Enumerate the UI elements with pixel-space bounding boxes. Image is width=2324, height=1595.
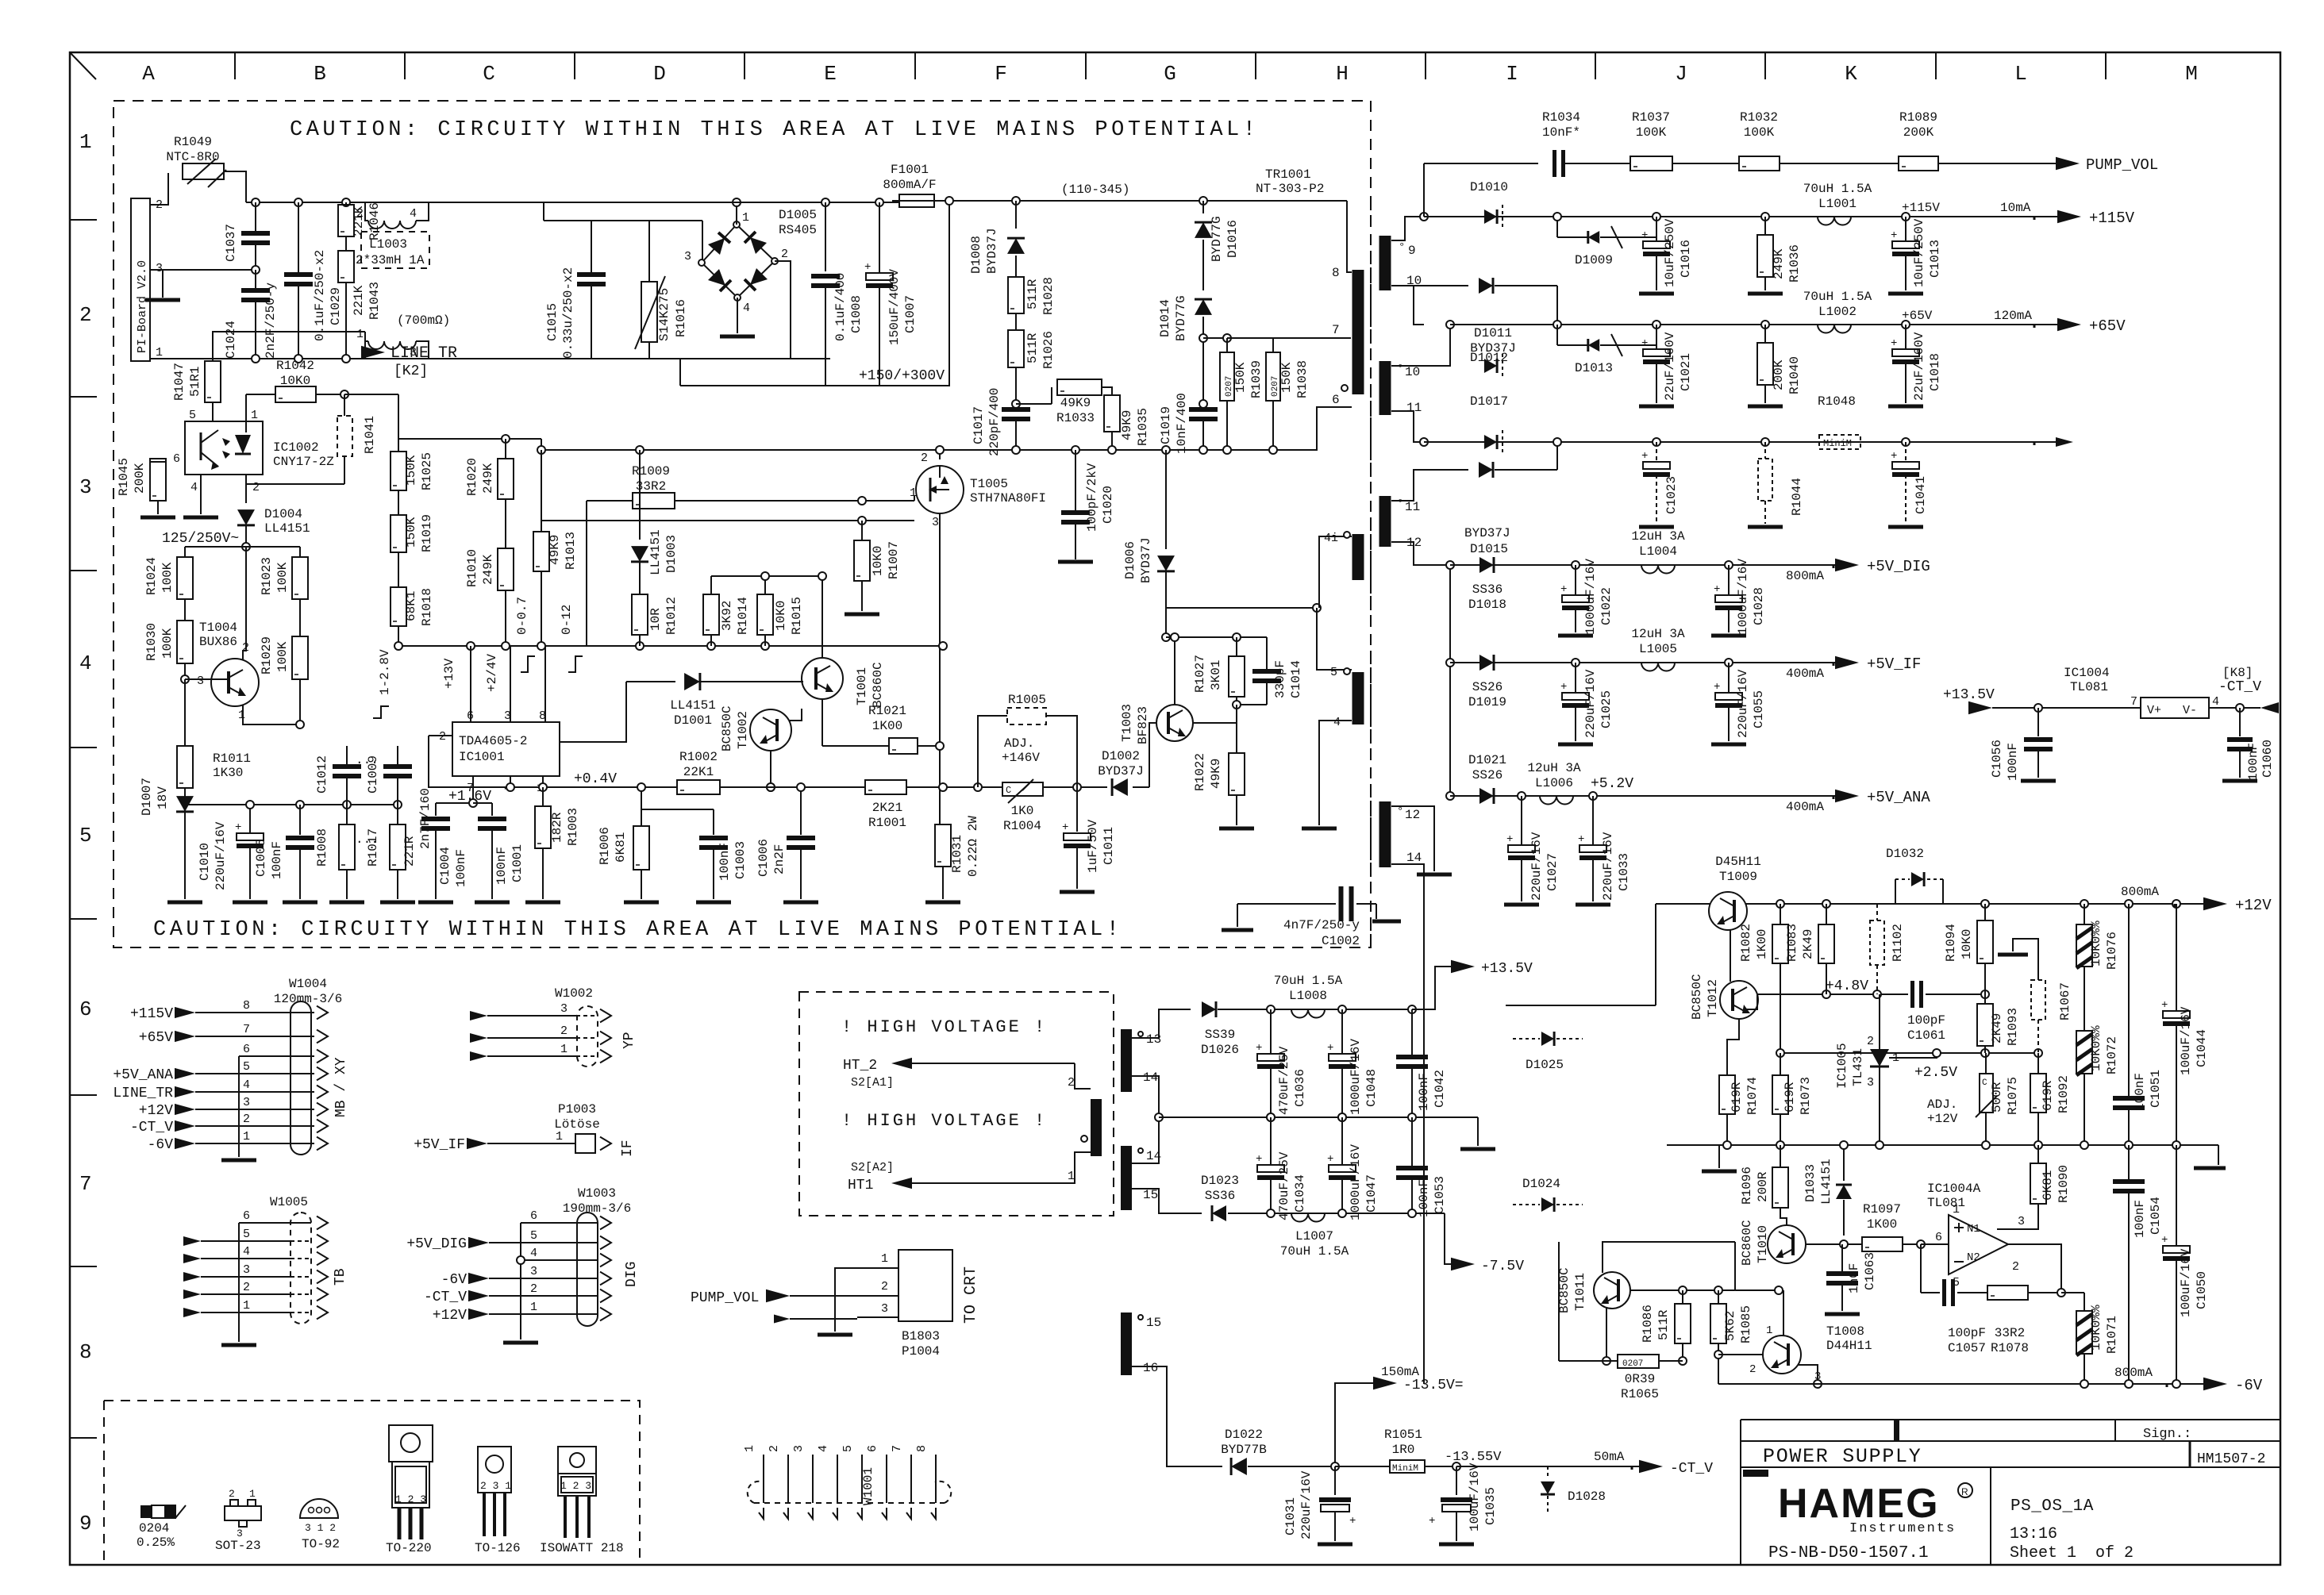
svg-text:B1803: B1803 xyxy=(902,1329,940,1343)
svg-text:4: 4 xyxy=(2212,695,2219,709)
wire xyxy=(1149,723,1157,787)
svg-text:R1046: R1046 xyxy=(367,202,382,240)
wire xyxy=(939,450,941,459)
svg-text:RS405: RS405 xyxy=(779,223,817,237)
small arrow xyxy=(2034,442,2036,445)
svg-text:5: 5 xyxy=(189,409,196,422)
resistor R1005 dashed xyxy=(1007,708,1046,724)
svg-text:6: 6 xyxy=(173,452,180,466)
svg-text:R1013: R1013 xyxy=(564,532,578,570)
svg-text:70uH 1.5A: 70uH 1.5A xyxy=(1803,182,1872,196)
column tick xyxy=(404,52,406,79)
wire xyxy=(185,804,398,805)
svg-text:2: 2 xyxy=(1749,1363,1756,1376)
junction xyxy=(1603,1357,1610,1365)
wire xyxy=(1740,1420,1741,1565)
svg-text:°: ° xyxy=(1397,805,1403,818)
column tick xyxy=(1595,52,1596,79)
svg-text:R1024: R1024 xyxy=(144,557,159,595)
svg-text:C1003: C1003 xyxy=(733,841,748,879)
svg-text:100K: 100K xyxy=(1636,125,1667,140)
svg-text:7: 7 xyxy=(243,1023,250,1036)
junction xyxy=(1723,1141,1731,1149)
svg-text:10K0: 10K0 xyxy=(1960,929,1974,959)
resistor R1030 100K xyxy=(184,599,186,621)
svg-text:8: 8 xyxy=(243,999,250,1013)
svg-text:C1029: C1029 xyxy=(329,287,343,325)
svg-text:1: 1 xyxy=(560,1043,568,1056)
svg-text:A: A xyxy=(142,62,155,86)
svg-text:-6V: -6V xyxy=(2235,1377,2263,1394)
svg-text:33R2: 33R2 xyxy=(1995,1326,2025,1340)
svg-text:C1028: C1028 xyxy=(1752,587,1766,625)
svg-text:-13.55V: -13.55V xyxy=(1445,1450,1502,1465)
wire pin8 xyxy=(1347,201,1352,272)
resistor R1022 49K9 xyxy=(1236,705,1237,753)
svg-text:+150/+300V: +150/+300V xyxy=(859,368,945,384)
svg-text:TL081: TL081 xyxy=(2070,680,2108,694)
svg-text:330pF: 330pF xyxy=(1273,660,1287,698)
title emb mark xyxy=(1743,1470,1768,1477)
wire W1005 pin6 gnd xyxy=(238,1223,240,1342)
wire xyxy=(246,475,344,484)
wire xyxy=(1046,716,1077,787)
svg-text:221R: 221R xyxy=(402,836,417,867)
svg-text:220uF/16V: 220uF/16V xyxy=(1299,1470,1314,1539)
capacitor C1050 100uF/16V xyxy=(2176,1145,2177,1245)
svg-text:BYD37J: BYD37J xyxy=(985,228,999,274)
resistor R1002 22K1 xyxy=(677,780,720,794)
wire xyxy=(679,359,681,386)
svg-text:+115V: +115V xyxy=(2089,209,2135,227)
junction xyxy=(539,783,547,791)
svg-text:PS-NB-D50-1507.1: PS-NB-D50-1507.1 xyxy=(1768,1544,1929,1562)
resistor R1018 68K1 xyxy=(398,552,399,587)
svg-text:HAMEG: HAMEG xyxy=(1778,1481,1940,1527)
wire xyxy=(184,813,186,899)
resistor R1001 2K21 xyxy=(865,780,906,794)
svg-text:0.1uF/250-x2: 0.1uF/250-x2 xyxy=(313,250,327,341)
svg-text:2n2F: 2n2F xyxy=(772,844,787,874)
junction xyxy=(767,783,775,791)
svg-text:125/250V~: 125/250V~ xyxy=(162,531,239,547)
wire pin16 xyxy=(1132,1366,1222,1466)
capacitor C1009 2n7F/160 xyxy=(397,746,398,766)
capacitor C1015 xyxy=(577,272,606,277)
junction xyxy=(1199,400,1207,408)
junction xyxy=(1902,213,1910,221)
svg-text:IC1001: IC1001 xyxy=(459,750,505,764)
net arrow +12V xyxy=(2203,897,2227,911)
svg-text:D1015: D1015 xyxy=(1470,542,1508,556)
wire xyxy=(1656,903,1710,905)
svg-text:C1016: C1016 xyxy=(1679,240,1693,278)
wire xyxy=(1741,1466,2280,1468)
svg-text:3: 3 xyxy=(243,1096,250,1109)
svg-text:[K8]: [K8] xyxy=(2222,666,2253,680)
svg-text:(700mΩ): (700mΩ) xyxy=(397,313,450,328)
svg-text:-7.5V: -7.5V xyxy=(1481,1259,1524,1274)
junction xyxy=(467,642,475,650)
svg-text:200K: 200K xyxy=(1903,125,1934,140)
svg-text:-13.5V=: -13.5V= xyxy=(1403,1378,1464,1393)
inductor L1003 bottom winding xyxy=(365,341,368,359)
IC TDA4605-2 IC1001 xyxy=(452,722,560,776)
svg-text:R1030: R1030 xyxy=(144,623,159,661)
column tick xyxy=(2105,52,2107,79)
svg-text:M: M xyxy=(2185,62,2198,86)
wire xyxy=(429,736,473,787)
wire pin11 xyxy=(1391,411,1424,442)
svg-text:L1005: L1005 xyxy=(1639,642,1677,656)
wire pin14b xyxy=(1132,1117,1159,1163)
wire xyxy=(1450,795,1841,797)
svg-text:4: 4 xyxy=(743,302,750,315)
wire xyxy=(1075,1063,1091,1089)
svg-text:1: 1 xyxy=(251,409,258,422)
svg-text:+5V_DIG: +5V_DIG xyxy=(1867,558,1930,575)
resistor dashed spare xyxy=(2013,939,2038,980)
svg-text:C1013: C1013 xyxy=(1928,240,1942,278)
svg-text:T1012: T1012 xyxy=(1706,979,1720,1017)
svg-text:R1003: R1003 xyxy=(566,808,580,846)
junction xyxy=(797,783,805,791)
svg-text:221K: 221K xyxy=(352,285,366,316)
junction xyxy=(1267,1209,1275,1217)
svg-text:C1009: C1009 xyxy=(366,755,380,794)
svg-text:182R: 182R xyxy=(550,812,564,843)
caution area dashed box xyxy=(114,101,1371,947)
junction xyxy=(1776,1049,1784,1057)
svg-text:2n2F/250-y: 2n2F/250-y xyxy=(264,282,278,359)
W1001 pin 4 xyxy=(837,1455,838,1503)
diode D1015 BYD37J xyxy=(1424,469,1468,471)
svg-text:N1: N1 xyxy=(1967,1223,1980,1236)
W1005 pin 5 xyxy=(183,1236,201,1246)
junction xyxy=(2080,1141,2088,1149)
svg-text:1: 1 xyxy=(743,1445,756,1452)
transistor T1012 BC850C xyxy=(1720,981,1758,1019)
svg-text:1: 1 xyxy=(910,486,917,500)
row tick xyxy=(70,918,97,920)
svg-text:100K: 100K xyxy=(275,641,290,672)
junction xyxy=(1446,792,1454,800)
svg-text:D1010: D1010 xyxy=(1470,180,1508,194)
svg-text:+12V: +12V xyxy=(433,1308,467,1324)
svg-text:2 3 1: 2 3 1 xyxy=(480,1480,511,1492)
svg-text:7: 7 xyxy=(891,1445,904,1452)
svg-text:7: 7 xyxy=(79,1172,92,1196)
column tick xyxy=(234,52,236,79)
svg-text:3: 3 xyxy=(243,1263,250,1277)
row tick xyxy=(70,1266,97,1267)
junction xyxy=(1518,792,1526,800)
svg-text:R1065: R1065 xyxy=(1621,1387,1659,1401)
dc loop wire xyxy=(680,201,949,386)
svg-text:8: 8 xyxy=(79,1340,92,1364)
wire xyxy=(1997,1204,2038,1229)
svg-text:+: + xyxy=(1560,681,1567,694)
svg-text:C1004: C1004 xyxy=(438,847,452,885)
wire xyxy=(1745,994,1757,1009)
svg-text:S2[A2]: S2[A2] xyxy=(851,1161,894,1174)
svg-text:R1040: R1040 xyxy=(1787,356,1802,394)
resistor R1047 51R1 xyxy=(205,361,221,402)
wire xyxy=(238,1056,240,1157)
column tick xyxy=(744,52,745,79)
wire xyxy=(472,776,474,805)
junction xyxy=(1553,321,1561,329)
wire xyxy=(1889,1053,1937,1058)
svg-text:LINE_TR: LINE_TR xyxy=(391,344,457,363)
svg-text:6: 6 xyxy=(243,1043,250,1056)
junction xyxy=(1589,792,1597,800)
svg-text:+2/4V: +2/4V xyxy=(485,654,499,692)
svg-text:150K: 150K xyxy=(404,517,418,548)
svg-text:+: + xyxy=(1062,821,1068,834)
wire xyxy=(1558,1242,1560,1361)
svg-text:3: 3 xyxy=(792,1445,806,1452)
svg-text:TO-92: TO-92 xyxy=(302,1537,340,1551)
svg-text:C1024: C1024 xyxy=(224,321,238,359)
svg-text:R1049: R1049 xyxy=(174,135,212,149)
junction xyxy=(1714,1286,1722,1294)
wire xyxy=(213,332,365,341)
svg-text:D1019: D1019 xyxy=(1468,695,1506,709)
transistor T1005 STH7NA80FI xyxy=(916,466,964,513)
transformer secondary bar 12-14 xyxy=(1379,801,1391,867)
capacitor C1063 1n0F xyxy=(1841,1244,1843,1273)
wire xyxy=(1370,201,1372,947)
W1003 pin 4 xyxy=(521,1259,597,1261)
svg-text:B: B xyxy=(314,62,326,86)
svg-text:R1014: R1014 xyxy=(736,597,750,635)
resistor R1045 200K xyxy=(150,459,166,501)
svg-text:C1037: C1037 xyxy=(224,224,238,262)
transformer secondary bar 11-12 xyxy=(1379,496,1391,547)
junction xyxy=(2172,1141,2180,1149)
svg-text:150K: 150K xyxy=(1279,362,1294,393)
svg-text:70uH 1.5A: 70uH 1.5A xyxy=(1274,974,1343,988)
svg-text:+: + xyxy=(1714,681,1720,694)
svg-text:120mA: 120mA xyxy=(1994,309,2032,323)
svg-text:R1004: R1004 xyxy=(1003,819,1041,833)
svg-text:SS26: SS26 xyxy=(1472,768,1503,782)
junction xyxy=(1338,1113,1346,1121)
svg-text:0-0.7: 0-0.7 xyxy=(515,597,529,635)
junction xyxy=(502,435,510,443)
wire pin14 xyxy=(1391,864,1424,1384)
resistor R1051 1R0 MiniM xyxy=(1335,1466,1390,1467)
svg-text:T1008: T1008 xyxy=(1826,1324,1864,1339)
svg-text:C1047: C1047 xyxy=(1364,1174,1379,1213)
svg-text:4: 4 xyxy=(190,481,198,494)
svg-text:V-: V- xyxy=(2183,704,2197,717)
junction xyxy=(342,355,350,363)
svg-text:BC860C: BC860C xyxy=(1740,1220,1754,1266)
svg-text:HT1: HT1 xyxy=(848,1178,873,1193)
svg-text:1uF/50V: 1uF/50V xyxy=(1086,819,1100,873)
resistor R1010 249K xyxy=(505,499,506,548)
resistor R1041 dashed xyxy=(337,416,352,456)
svg-text:ADJ.: ADJ. xyxy=(1927,1097,1957,1112)
junction xyxy=(1981,990,1989,998)
svg-text:22uF/160V: 22uF/160V xyxy=(1912,332,1926,401)
svg-text:NT-303-P2: NT-303-P2 xyxy=(1256,182,1324,196)
svg-text:R1027: R1027 xyxy=(1193,655,1207,693)
svg-text:C1019: C1019 xyxy=(1159,406,1173,444)
svg-text:ADJ.: ADJ. xyxy=(1004,736,1034,751)
wire xyxy=(835,1268,857,1332)
svg-text:619R: 619R xyxy=(2041,1080,2055,1111)
svg-text:100pF: 100pF xyxy=(1907,1013,1945,1028)
svg-text:G: G xyxy=(1164,62,1176,86)
wire xyxy=(436,802,473,804)
svg-text:C1006: C1006 xyxy=(756,839,771,877)
svg-text:C1017: C1017 xyxy=(972,406,986,444)
svg-text:+13.5V: +13.5V xyxy=(1481,961,1533,977)
junction xyxy=(252,355,260,363)
junction xyxy=(1267,1113,1275,1121)
package ISOWATT 218 xyxy=(558,1447,596,1474)
junction xyxy=(733,198,741,206)
svg-text:+: + xyxy=(1560,583,1567,596)
svg-text:100nF: 100nF xyxy=(2006,743,2020,781)
diode D1009 xyxy=(1556,217,1558,237)
wire xyxy=(1799,1365,1818,1384)
svg-text:10K0: 10K0 xyxy=(871,546,885,576)
wire xyxy=(1672,163,1739,164)
svg-text:4: 4 xyxy=(817,1445,830,1452)
net arrow +115V xyxy=(2057,210,2081,224)
svg-text:0R39: 0R39 xyxy=(1625,1372,1655,1386)
junction xyxy=(252,198,260,206)
svg-text:10uF/250V: 10uF/250V xyxy=(1663,218,1677,287)
svg-text:R1083: R1083 xyxy=(1785,924,1799,962)
svg-text:2: 2 xyxy=(921,452,928,465)
svg-text:D1009: D1009 xyxy=(1575,253,1613,267)
svg-text:+: + xyxy=(1327,1042,1333,1055)
svg-text:1K0: 1K0 xyxy=(1011,804,1034,818)
svg-text:BYD37J: BYD37J xyxy=(1098,764,1144,778)
phase dot xyxy=(1081,1136,1087,1142)
transformer primary winding bar top xyxy=(1352,270,1364,394)
svg-text:68K1: 68K1 xyxy=(404,591,418,621)
svg-text:D1002: D1002 xyxy=(1102,749,1140,763)
svg-text:1000uF/16V: 1000uF/16V xyxy=(1349,1039,1363,1115)
svg-text:R1028: R1028 xyxy=(1041,277,1056,315)
resistor R1074 619R xyxy=(1727,1019,1739,1075)
svg-text:4i: 4i xyxy=(1324,532,1338,545)
svg-text:C1012: C1012 xyxy=(315,755,329,794)
wire pin10 xyxy=(1391,286,1424,325)
capacitor C1054 100nF xyxy=(2128,1145,2130,1181)
junction xyxy=(502,642,510,650)
svg-text:PUMP_VOL: PUMP_VOL xyxy=(691,1290,759,1306)
svg-text:-6V: -6V xyxy=(441,1272,467,1288)
svg-text:R1085: R1085 xyxy=(1739,1305,1753,1343)
varistor S14K275 R1016 xyxy=(641,282,657,342)
svg-text:I: I xyxy=(1506,62,1518,86)
svg-text:619R: 619R xyxy=(1783,1082,1797,1113)
svg-text:L1001: L1001 xyxy=(1818,197,1857,211)
svg-text:+115V: +115V xyxy=(1902,201,1940,215)
svg-text:2: 2 xyxy=(881,1280,888,1293)
junction xyxy=(1572,659,1579,667)
svg-text:DIG: DIG xyxy=(624,1262,640,1287)
wire xyxy=(1746,903,2214,905)
svg-text:D1028: D1028 xyxy=(1568,1489,1606,1504)
capacitor R1034 10nF* xyxy=(1553,150,1556,177)
svg-text:IC1005: IC1005 xyxy=(1835,1043,1849,1089)
wire xyxy=(544,646,546,722)
wire xyxy=(162,270,164,298)
svg-text:0204: 0204 xyxy=(139,1521,169,1535)
svg-text:16: 16 xyxy=(1143,1361,1158,1375)
diode D1014 BYD77G xyxy=(1195,299,1212,315)
svg-text:6: 6 xyxy=(866,1445,879,1452)
capacitor C1006 2n2F xyxy=(800,787,802,835)
trimmer R1075 500R xyxy=(1980,1074,1993,1113)
wire pin5 xyxy=(1317,608,1352,670)
svg-text:C1020: C1020 xyxy=(1101,486,1115,524)
junction xyxy=(1408,1209,1416,1217)
resistor R1035 49K9 xyxy=(1102,387,1112,395)
wire xyxy=(1630,1289,1779,1291)
svg-text:1 2 3: 1 2 3 xyxy=(395,1493,426,1505)
svg-text:3: 3 xyxy=(156,262,163,275)
resistor R1013 49K9 xyxy=(541,439,542,450)
wire xyxy=(470,646,471,722)
svg-text:1n0F: 1n0F xyxy=(1847,1263,1861,1293)
svg-text:800mA/F: 800mA/F xyxy=(883,178,936,192)
wire xyxy=(1990,1467,1991,1565)
svg-text:+65V: +65V xyxy=(2089,317,2126,335)
svg-text:8: 8 xyxy=(1332,266,1340,280)
svg-text:10mA: 10mA xyxy=(2000,201,2031,215)
svg-text:100pF/2kV: 100pF/2kV xyxy=(1085,463,1099,532)
svg-text:+65V: +65V xyxy=(1902,309,1933,323)
gnd xyxy=(1477,1117,1479,1146)
svg-text:1: 1 xyxy=(1068,1170,1075,1183)
svg-text:H: H xyxy=(1336,62,1349,86)
junction xyxy=(1822,900,1830,908)
junction xyxy=(294,198,302,206)
W1001 pin 3 xyxy=(812,1455,814,1503)
junction xyxy=(181,675,189,683)
column tick xyxy=(1085,52,1087,79)
net arrow -6V xyxy=(2203,1378,2227,1391)
svg-text:C1060: C1060 xyxy=(2261,740,2275,778)
diode D1023 SS36 xyxy=(1212,1205,1226,1221)
resistor R1006 6K81 xyxy=(641,787,642,826)
wire xyxy=(1780,1052,2038,1054)
junction xyxy=(1714,1351,1722,1359)
svg-text:S14K275: S14K275 xyxy=(657,288,671,341)
svg-text:L1006: L1006 xyxy=(1535,776,1573,790)
wire xyxy=(821,576,823,658)
svg-text:+12V: +12V xyxy=(139,1103,173,1119)
column tick xyxy=(914,52,916,79)
svg-text:C1027: C1027 xyxy=(1545,853,1560,891)
wire xyxy=(1783,1290,1784,1336)
resistor R1025 150K xyxy=(391,452,406,490)
wire T1008 base xyxy=(1718,1354,1763,1355)
wire xyxy=(1159,1116,1478,1118)
svg-text:800mA: 800mA xyxy=(1786,569,1824,583)
column tick xyxy=(1255,52,1256,79)
svg-text:R1012: R1012 xyxy=(664,597,679,635)
